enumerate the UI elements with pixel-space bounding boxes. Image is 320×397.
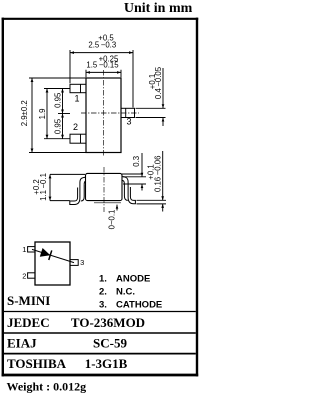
svg-text:N.C.: N.C. [116, 286, 135, 297]
ext line side body top [50, 173, 85, 175]
svg-text:S-MINI: S-MINI [7, 293, 50, 308]
dim 0.16 ext lines [137, 199, 167, 201]
top view: pin 2 lead [70, 134, 86, 143]
table line 3 [4, 353, 196, 355]
ext line package mid [58, 113, 70, 115]
top view: pin 1 lead [70, 84, 86, 92]
svg-text:0.3: 0.3 [132, 156, 141, 167]
svg-text:2: 2 [73, 122, 78, 132]
ext line seating [50, 200, 70, 202]
svg-text:1: 1 [22, 245, 26, 254]
side view: right gull-wing lead (pin 3) [122, 177, 135, 204]
ext line body top right [122, 173, 143, 175]
svg-text:1: 1 [74, 93, 79, 103]
dim 1.1 line + ext [49, 174, 51, 200]
diode symbol (anode pin1 to cathode pin3) [32, 249, 74, 262]
symbol outline box [35, 242, 70, 285]
svg-text:TOSHIBA: TOSHIBA [7, 356, 67, 371]
svg-text:ANODE: ANODE [116, 273, 150, 284]
dim 0.95 line [62, 89, 64, 139]
svg-text:2.: 2. [99, 286, 107, 297]
svg-text:SC-59: SC-59 [93, 336, 127, 351]
svg-text:0.16 −0.06: 0.16 −0.06 [154, 156, 163, 192]
svg-text:3.: 3. [99, 299, 107, 310]
svg-text:0.95: 0.95 [54, 118, 63, 134]
svg-text:Weight : 0.012g: Weight : 0.012g [7, 379, 87, 393]
seating plane line [94, 202, 121, 204]
symbol pin 1 stub [28, 247, 35, 252]
top view horizontal centerline [81, 112, 139, 114]
side view: body [86, 173, 123, 200]
dim 0~0.1 arrow [116, 205, 118, 211]
frame border left [2, 18, 4, 377]
svg-text:EIAJ: EIAJ [7, 336, 37, 351]
svg-text:CATHODE: CATHODE [116, 299, 162, 310]
ext line body left [85, 70, 87, 78]
svg-text:2.5 −0.3: 2.5 −0.3 [88, 40, 116, 49]
ext line pin3 bottom [136, 117, 166, 119]
svg-text:0.95: 0.95 [54, 92, 63, 108]
side view vertical centerline [103, 167, 105, 212]
svg-text:1-3G1B: 1-3G1B [85, 356, 128, 371]
side view: left gull-wing lead [70, 177, 86, 204]
pin 1 lead bend line [80, 84, 82, 92]
frame border right [196, 18, 198, 377]
svg-text:3: 3 [126, 117, 131, 127]
ext lines body top/bottom (2.9) [29, 77, 86, 79]
top view: pin 3 lead [121, 108, 135, 117]
ext line pin3 lead tip [132, 50, 134, 108]
table line 1 [4, 311, 196, 313]
top view vertical centerline [103, 70, 105, 157]
svg-text:TO-236MOD: TO-236MOD [71, 315, 145, 330]
ext lines pin1/pin2 centers [44, 88, 70, 90]
pin 3 lead bend line [125, 108, 127, 117]
symbol pin 3 stub [70, 260, 78, 266]
symbol pin 2 stub [28, 273, 35, 278]
ext line body right [120, 70, 122, 78]
svg-text:3: 3 [80, 258, 84, 267]
dim 0.16 line + arrows [162, 151, 164, 200]
svg-text:2: 2 [22, 271, 26, 280]
dim 0.3 line + arrows [141, 153, 143, 177]
frame border bottom [2, 374, 199, 377]
svg-text:1.1 −0.1: 1.1 −0.1 [39, 173, 48, 201]
dim 2.5 line [70, 52, 133, 54]
dim 1.9 line [46, 89, 48, 139]
frame border top [2, 18, 199, 20]
svg-text:1.9: 1.9 [38, 109, 47, 120]
svg-text:0.4 −0.05: 0.4 −0.05 [154, 66, 163, 99]
ext line pin3 top [136, 107, 166, 109]
svg-text:1.: 1. [99, 273, 107, 284]
dim 1.5 line [86, 71, 121, 73]
top view: package body [86, 78, 121, 153]
pin 2 lead bend line [80, 134, 82, 143]
svg-text:Unit in mm: Unit in mm [124, 1, 193, 16]
svg-text:0~0.1: 0~0.1 [108, 210, 117, 230]
ext line left lead tip [69, 50, 71, 83]
dim 2.9 line [31, 78, 33, 153]
dim 0.3 ext lines [123, 176, 146, 178]
svg-text:2.9±0.2: 2.9±0.2 [20, 100, 29, 126]
svg-text:JEDEC: JEDEC [7, 315, 50, 330]
svg-text:1.5 −0.15: 1.5 −0.15 [86, 60, 119, 69]
table line 2 [4, 332, 196, 334]
